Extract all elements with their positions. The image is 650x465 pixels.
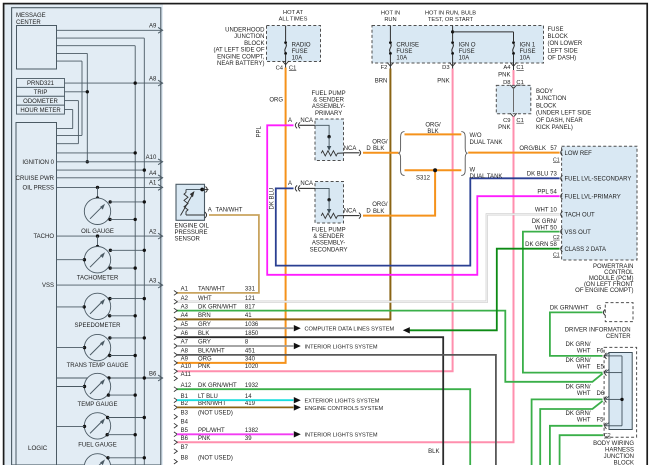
svg-text:A10: A10	[146, 155, 157, 161]
svg-text:ODOMETER: ODOMETER	[23, 99, 58, 105]
svg-text:(NOT USED): (NOT USED)	[198, 455, 233, 461]
left brace	[398, 132, 404, 176]
wire trans temp upper pin to rail 2	[108, 336, 146, 339]
svg-text:340: 340	[245, 357, 256, 363]
pin list row A3 DK GRN/WHT 817	[174, 304, 256, 313]
wire CRUISE PWR / A4	[16, 171, 163, 182]
wire speedometer upper pin to rail 2	[108, 297, 146, 300]
wire GRY circuit 1036 pin A5	[177, 325, 394, 333]
svg-text:C1: C1	[516, 65, 523, 71]
svg-text:IGN O: IGN O	[459, 42, 476, 48]
label W DUAL TANK	[470, 168, 503, 180]
powertrain control module box	[562, 146, 637, 260]
svg-text:A: A	[288, 118, 292, 124]
label LOGIC	[28, 445, 48, 452]
svg-text:E5: E5	[597, 365, 605, 371]
wire temp gauge lower pin to rail 1	[107, 393, 137, 396]
sensor internal variable resistor	[181, 190, 205, 216]
wire DK GRN circuit 58, CLASS 2 DATA to computer data lines	[403, 249, 560, 334]
svg-text:10A: 10A	[459, 56, 470, 62]
svg-text:BLK: BLK	[373, 209, 384, 215]
svg-text:GRY: GRY	[198, 322, 211, 328]
wire tachometer upper pin to rail 2	[109, 249, 146, 252]
svg-text:B4: B4	[181, 419, 189, 425]
svg-text:C9: C9	[503, 118, 510, 124]
gauge TEMP GAUGE	[78, 373, 118, 408]
svg-text:ORG/: ORG/	[372, 202, 388, 208]
pin list row A1 TAN/WHT 331	[174, 287, 256, 296]
wire GRY circuit 8 pin A7	[177, 343, 378, 351]
driver information center box	[603, 303, 633, 322]
svg-text:PNK: PNK	[498, 125, 510, 131]
svg-text:VSS OUT: VSS OUT	[565, 230, 592, 236]
svg-text:817: 817	[245, 304, 256, 310]
svg-text:DRIVER INFORMATION: DRIVER INFORMATION	[565, 328, 631, 334]
wire ORG/BLK primary output	[363, 139, 399, 153]
label BODY WIRING HARNESS JUNCTION BLOCK	[593, 441, 634, 465]
fuse RADIO FUSE 10A	[284, 26, 311, 62]
svg-text:(NOT USED): (NOT USED)	[198, 410, 233, 416]
wire fuel gauge lower pin to rail 1	[106, 433, 137, 436]
wire A8 from PRND321	[65, 76, 163, 86]
svg-text:BLOCK: BLOCK	[548, 34, 568, 40]
pin list row A2 WHT 121	[174, 296, 256, 304]
svg-text:A3: A3	[149, 278, 157, 284]
svg-text:A2: A2	[181, 296, 189, 302]
svg-text:ENGINE COMPT,: ENGINE COMPT,	[217, 54, 265, 60]
wire DK GRN/WHT, DIC to junction block F6	[550, 312, 603, 356]
svg-text:D: D	[366, 209, 371, 215]
svg-text:FUSE: FUSE	[548, 27, 564, 33]
junction block pin D6	[565, 385, 609, 403]
svg-text:W: W	[470, 168, 476, 174]
svg-text:SPEEDOMETER: SPEEDOMETER	[74, 323, 121, 329]
wire ORG/BLK without dual tank branch	[405, 123, 462, 136]
svg-text:DK GRN/: DK GRN/	[565, 342, 590, 348]
svg-text:PRESSURE: PRESSURE	[175, 230, 208, 236]
wire ORG/BLK secondary output to splice S312	[363, 170, 435, 215]
svg-text:57: 57	[550, 146, 557, 152]
svg-text:WHT 50: WHT 50	[535, 225, 558, 231]
pin list row A5 GRY 1036	[174, 322, 259, 331]
wire message center to ignition line	[57, 53, 90, 163]
svg-text:10A: 10A	[520, 56, 531, 62]
wire temp gauge left pin	[57, 385, 87, 388]
svg-text:COMPUTER DATA LINES SYSTEM: COMPUTER DATA LINES SYSTEM	[305, 327, 395, 333]
svg-text:C2: C2	[553, 235, 560, 241]
svg-text:FUEL LVL-PRIMARY: FUEL LVL-PRIMARY	[565, 195, 621, 201]
wire fuel gauge left pin	[57, 425, 87, 428]
indicator box ODOMETER	[17, 96, 65, 105]
wire temp gauge / B6	[57, 371, 163, 381]
svg-text:JUNCTION: JUNCTION	[604, 454, 634, 460]
PCM pin FUEL LVL-PRIMARY	[537, 189, 620, 200]
svg-text:A4: A4	[149, 171, 157, 177]
svg-text:C4: C4	[276, 65, 284, 71]
svg-text:(ON LOWER: (ON LOWER	[548, 41, 583, 47]
svg-text:WHT: WHT	[577, 391, 591, 397]
secondary sender internals	[315, 188, 344, 218]
wire trans temp gauge left pin	[57, 346, 87, 349]
pin list row A11	[174, 372, 192, 381]
wire from TRIP	[65, 90, 90, 93]
svg-text:VSS: VSS	[42, 283, 54, 289]
label BODY JUNCTION BLOCK	[536, 89, 591, 131]
junction block pin F6	[565, 342, 609, 359]
svg-text:BLOCK: BLOCK	[614, 461, 634, 465]
connector C9/C1	[498, 118, 524, 131]
svg-text:BLK: BLK	[428, 449, 439, 455]
svg-text:TRIP: TRIP	[34, 90, 48, 96]
wire ORG/BLK circuit 57 to PCM LOW REF	[468, 146, 559, 153]
svg-text:D6: D6	[597, 391, 605, 397]
svg-text:TACHOMETER: TACHOMETER	[77, 276, 119, 282]
svg-text:419: 419	[245, 401, 256, 407]
svg-text:PNK: PNK	[198, 364, 210, 370]
svg-text:DK GRN/WHT: DK GRN/WHT	[550, 305, 589, 311]
svg-text:FUEL GAUGE: FUEL GAUGE	[78, 442, 116, 448]
svg-text:JUNCTION: JUNCTION	[234, 34, 264, 40]
PCM pin VSS OUT	[532, 219, 591, 241]
svg-text:41: 41	[245, 313, 252, 319]
gauge bottom (cut off)	[84, 454, 110, 465]
svg-text:BLOCK: BLOCK	[244, 41, 264, 47]
wire A9 from message center	[57, 24, 163, 34]
svg-text:1020: 1020	[245, 364, 259, 370]
junction block pin E5	[565, 358, 609, 375]
label FUEL PUMP & SENDER ASSEMBLY-SECONDARY	[310, 228, 348, 254]
pin list row B2 BRN/WHT 419	[174, 401, 256, 410]
svg-text:A1: A1	[181, 287, 189, 293]
svg-text:B2: B2	[181, 401, 189, 407]
svg-text:RUN: RUN	[384, 17, 396, 23]
svg-text:NCA: NCA	[344, 146, 357, 152]
svg-text:B5: B5	[181, 428, 189, 434]
message center display box	[17, 26, 57, 70]
svg-text:DK BLU 73: DK BLU 73	[527, 171, 558, 177]
svg-text:HOT IN: HOT IN	[381, 10, 400, 16]
svg-text:LEFT SIDE: LEFT SIDE	[548, 48, 578, 54]
svg-text:A: A	[288, 181, 292, 187]
svg-text:DK GRN/: DK GRN/	[565, 385, 590, 391]
svg-text:(UNDER LEFT SIDE: (UNDER LEFT SIDE	[536, 111, 591, 117]
primary sender internals	[315, 125, 344, 156]
wire BLK/WHT circuit 451 pin A8	[177, 355, 496, 465]
svg-text:JUNCTION: JUNCTION	[536, 96, 566, 102]
svg-text:14: 14	[245, 394, 252, 400]
svg-text:BODY: BODY	[536, 89, 553, 95]
label ENGINE OIL PRESSURE SENSOR	[175, 223, 210, 242]
wire tachometer left pin	[57, 258, 87, 261]
wire DK BLU circuit 73 to fuel pump secondary and PCM	[269, 178, 559, 265]
label FUSE BLOCK	[548, 27, 583, 62]
label W/O DUAL TANK	[470, 133, 503, 146]
svg-text:A11: A11	[181, 372, 192, 378]
svg-text:CRUISE: CRUISE	[396, 42, 419, 48]
indicator box HOUR METER	[17, 105, 65, 114]
label HOT IN RUN, BULB TEST, OR START	[425, 10, 476, 23]
svg-text:FUEL LVL-SECONDARY: FUEL LVL-SECONDARY	[565, 177, 632, 183]
svg-text:UNDERHOOD: UNDERHOOD	[225, 27, 265, 33]
svg-text:A2: A2	[149, 229, 157, 235]
wire IGNITION 0 / A10	[22, 155, 162, 166]
wire TAN/WHT circuit 331 to pin A1	[177, 215, 259, 293]
wire from ODOMETER	[57, 101, 79, 144]
svg-text:KICK PANEL): KICK PANEL)	[536, 125, 573, 131]
pin list row B6 PNK 39	[174, 436, 252, 445]
wire DK GRN/WHT to junction block C2	[560, 435, 604, 465]
wire fuel gauge upper pin to rail 2	[106, 416, 146, 419]
svg-text:D: D	[366, 146, 371, 152]
PCM pin LOW REF	[553, 150, 592, 164]
svg-text:NCA: NCA	[300, 181, 313, 187]
junction block internal bus	[606, 356, 624, 426]
svg-text:FUSE: FUSE	[292, 49, 308, 55]
svg-text:NEAR BATTERY): NEAR BATTERY)	[217, 61, 264, 67]
indicator box PRND321	[17, 79, 65, 88]
gauge OIL GAUGE	[81, 198, 114, 235]
pin list row A7 GRY 8	[174, 340, 249, 349]
svg-text:ORG: ORG	[198, 357, 212, 363]
wire OIL PRESS / A1	[23, 181, 163, 192]
svg-text:TACH OUT: TACH OUT	[565, 213, 596, 219]
svg-text:A6: A6	[181, 331, 189, 337]
gauge TRANS TEMP GAUGE	[67, 334, 129, 368]
fuse CRUISE FUSE 10A	[389, 26, 419, 64]
wire BLK circuit 1850 pin A6	[177, 337, 443, 465]
wire from HOUR METER	[57, 110, 73, 129]
svg-text:1932: 1932	[245, 383, 259, 389]
svg-text:C1: C1	[553, 252, 560, 258]
wire logic box to rail 2	[57, 168, 147, 171]
wire PPL circuit 54 to fuel pump primary and PCM	[257, 125, 560, 274]
wire oil gauge upper pin to rail 2	[109, 200, 147, 203]
svg-text:DK GRN/: DK GRN/	[565, 358, 590, 364]
svg-text:FUEL PUMP: FUEL PUMP	[312, 91, 346, 97]
svg-text:451: 451	[245, 349, 256, 355]
svg-text:HOT IN RUN, BULB: HOT IN RUN, BULB	[425, 10, 476, 16]
wire ORG/BLK with dual tank branch	[405, 169, 462, 171]
wire WHT circuit 121 to PCM TACH OUT	[177, 214, 560, 301]
fuse IGN O FUSE 10A	[451, 41, 476, 63]
svg-text:ORG: ORG	[269, 98, 283, 104]
svg-text:B6: B6	[181, 436, 189, 442]
wire DK GRN/WHT circuit 1932 from pin A12	[177, 389, 470, 465]
svg-text:CRUISE PWR: CRUISE PWR	[16, 176, 55, 182]
svg-text:LOGIC: LOGIC	[28, 445, 48, 452]
pin list row B3 (NOT USED)	[174, 410, 233, 419]
svg-text:TAN/WHT: TAN/WHT	[216, 208, 243, 214]
svg-text:PRIMARY: PRIMARY	[315, 111, 342, 117]
label DK GRN/WHT G	[550, 305, 602, 311]
svg-text:10A: 10A	[292, 56, 303, 62]
connector A at sensor	[205, 208, 243, 218]
right brace	[461, 132, 467, 176]
svg-text:WHT: WHT	[577, 418, 591, 424]
svg-text:F6: F6	[597, 349, 605, 355]
wire logic box to rail 1	[57, 151, 137, 154]
svg-text:W/O: W/O	[470, 133, 482, 139]
svg-text:PNK: PNK	[198, 436, 210, 442]
svg-text:IGNITION 0: IGNITION 0	[22, 160, 54, 166]
svg-text:39: 39	[245, 436, 252, 442]
fuse IGN 1 FUSE 10A	[512, 41, 536, 63]
svg-text:A5: A5	[181, 322, 189, 328]
pin list row A6 BLK 1850	[174, 331, 259, 340]
svg-text:(AT LEFT SIDE OF: (AT LEFT SIDE OF	[213, 48, 264, 54]
svg-text:B1: B1	[181, 394, 189, 400]
svg-text:1036: 1036	[245, 322, 259, 328]
svg-text:B3: B3	[181, 410, 189, 416]
wire oil gauge lower pin to rail 1	[108, 218, 137, 221]
svg-text:A1: A1	[149, 181, 157, 187]
svg-text:ORG/: ORG/	[372, 139, 388, 145]
wire bottom gauge upper pin to rail 2	[106, 456, 146, 459]
svg-text:C1: C1	[289, 65, 296, 71]
label UNDERHOOD JUNCTION BLOCK	[213, 27, 265, 67]
wire to right rail 1	[57, 46, 136, 465]
svg-text:RADIO: RADIO	[292, 42, 311, 48]
svg-text:BLK: BLK	[373, 146, 384, 152]
logic box	[16, 123, 57, 465]
svg-text:ORG/: ORG/	[425, 123, 441, 129]
svg-text:A9: A9	[149, 24, 157, 30]
svg-text:TEST, OR START: TEST, OR START	[428, 17, 474, 23]
svg-text:DK GRN 58: DK GRN 58	[525, 242, 557, 248]
svg-text:ASSEMBLY-: ASSEMBLY-	[312, 104, 345, 110]
sensor case ground	[200, 187, 208, 193]
pin list row B7	[174, 445, 189, 454]
svg-text:B6: B6	[149, 371, 157, 377]
svg-text:A8: A8	[181, 349, 189, 355]
body junction block	[496, 85, 531, 117]
svg-text:FUSE: FUSE	[520, 49, 536, 55]
instrument cluster blue background zone	[5, 5, 164, 465]
svg-text:CENTER: CENTER	[16, 20, 41, 26]
svg-text:DK BLU: DK BLU	[269, 188, 275, 210]
svg-text:DK GRN/WHT: DK GRN/WHT	[198, 304, 237, 310]
label FUEL PUMP & SENDER ASSEMBLY-PRIMARY	[312, 91, 346, 117]
svg-text:CLASS 2 DATA: CLASS 2 DATA	[565, 247, 606, 253]
wire DK GRN/WHT circuit 50, VSS OUT to junction block E5	[523, 232, 603, 373]
svg-text:GRY: GRY	[198, 340, 211, 346]
svg-text:FUSE: FUSE	[459, 49, 475, 55]
svg-text:WHT: WHT	[198, 296, 212, 302]
svg-text:INTERIOR LIGHTS SYSTEM: INTERIOR LIGHTS SYSTEM	[305, 344, 378, 350]
pin list row B1 LT BLU 14	[174, 394, 252, 403]
wire VSS / A3	[42, 278, 163, 289]
svg-text:OF DASH, NEAR: OF DASH, NEAR	[536, 118, 583, 124]
pin list row B5 PPL/WHT 1382	[174, 428, 259, 437]
svg-text:& SENDER: & SENDER	[313, 98, 344, 104]
svg-text:& SENDER: & SENDER	[313, 234, 344, 240]
junction block connector C2	[604, 433, 611, 439]
wire PNK circuit 39, body junction block to pin B6	[177, 117, 514, 443]
svg-text:A3: A3	[181, 304, 189, 310]
gauge SPEEDOMETER	[74, 293, 121, 329]
svg-text:SENSOR: SENSOR	[175, 237, 201, 243]
svg-text:C1: C1	[553, 157, 560, 163]
svg-text:F2: F2	[381, 65, 388, 71]
svg-text:PNK: PNK	[498, 72, 510, 78]
wire PPL/WHT circuit 1382 pin B5	[177, 431, 378, 439]
svg-text:WHT: WHT	[577, 365, 591, 371]
wire to tachometer top	[96, 236, 99, 248]
PCM pin FUEL LVL-SECONDARY	[527, 171, 632, 182]
wire to oil gauge top	[96, 187, 99, 199]
pin list row A10 PNK 1020	[174, 364, 259, 374]
svg-text:S312: S312	[416, 175, 431, 181]
label MESSAGE CENTER	[16, 13, 46, 26]
wire ORG circuit 340, radio fuse to pin A9	[177, 62, 286, 363]
wire DK GRN/WHT circuit 817, pin A3 to junction block E5	[177, 311, 603, 382]
fuse block box	[372, 26, 544, 64]
svg-text:DK GRN/: DK GRN/	[565, 411, 590, 417]
svg-text:HOT AT: HOT AT	[283, 10, 304, 16]
wire TACHO / A2	[33, 229, 162, 240]
svg-text:A10: A10	[181, 364, 192, 370]
svg-text:TACHO: TACHO	[33, 234, 54, 240]
svg-text:INTERIOR LIGHTS SYSTEM: INTERIOR LIGHTS SYSTEM	[305, 433, 378, 439]
svg-text:BLK: BLK	[198, 331, 209, 337]
svg-text:OF ENGINE COMPT): OF ENGINE COMPT)	[575, 288, 633, 294]
svg-text:C2: C2	[604, 433, 611, 439]
svg-text:A8: A8	[149, 76, 157, 82]
svg-text:FUEL PUMP: FUEL PUMP	[312, 228, 346, 234]
svg-text:ALL TIMES: ALL TIMES	[279, 17, 308, 23]
pin list row A8 BLK/WHT 451	[174, 349, 256, 358]
svg-text:HARNESS: HARNESS	[605, 448, 634, 454]
junction block pin F5	[565, 411, 609, 429]
wire DK GRN/WHT to junction block D6 (lower)	[532, 399, 603, 465]
svg-text:ENGINE CONTROLS SYSTEM: ENGINE CONTROLS SYSTEM	[305, 406, 384, 412]
svg-text:121: 121	[245, 296, 256, 302]
label HOT AT ALL TIMES	[279, 10, 308, 23]
svg-text:331: 331	[245, 287, 256, 293]
svg-text:PPL: PPL	[257, 125, 263, 137]
wire trans temp lower pin to rail 1	[108, 354, 137, 357]
svg-text:A4: A4	[503, 65, 511, 71]
svg-text:A4: A4	[181, 313, 189, 319]
connector C4/C1 at radio fuse	[276, 61, 297, 71]
svg-text:LOW REF: LOW REF	[565, 151, 593, 157]
connector A4/C1	[503, 63, 523, 72]
svg-text:PPL 54: PPL 54	[537, 189, 557, 195]
svg-text:FUSE: FUSE	[396, 49, 412, 55]
svg-text:C1: C1	[516, 118, 523, 124]
connector A NCA at secondary	[288, 181, 315, 191]
svg-text:B8: B8	[181, 455, 189, 461]
engine oil pressure sensor box	[176, 184, 205, 220]
label DRIVER INFORMATION CENTER	[565, 328, 632, 340]
svg-text:IGN 1: IGN 1	[520, 42, 536, 48]
body wiring harness junction block outer box	[604, 347, 637, 437]
underhood junction block box	[267, 26, 321, 62]
connector D3	[442, 63, 456, 72]
svg-text:1850: 1850	[245, 331, 259, 337]
indicator box TRIP	[17, 87, 65, 96]
pin list row A4 BRN 41	[174, 313, 252, 322]
svg-text:CENTER: CENTER	[606, 334, 631, 340]
wire DK GRN/WHT to junction block F5	[550, 426, 603, 465]
svg-text:OIL GAUGE: OIL GAUGE	[81, 229, 114, 235]
svg-text:MESSAGE: MESSAGE	[16, 13, 46, 19]
wire BRN circuit 41, cruise fuse to pin A4	[177, 63, 390, 319]
svg-text:TRANS TEMP GAUGE: TRANS TEMP GAUGE	[67, 363, 129, 369]
svg-text:SECONDARY: SECONDARY	[310, 247, 348, 253]
wire speedometer left pin	[57, 305, 86, 308]
connector NCA D at primary output	[344, 146, 372, 156]
